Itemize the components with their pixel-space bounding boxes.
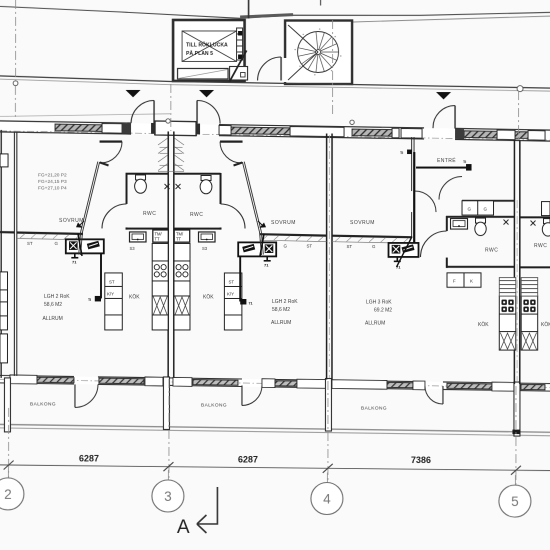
- svg-text:ST: ST: [347, 244, 353, 249]
- svg-text:TT: TT: [155, 236, 161, 241]
- balcony divider post g2: [4, 378, 10, 432]
- dimension tick x8.7: [4, 461, 14, 470]
- grid bubble 5 stem: [514, 475, 516, 485]
- wardrobe wall left edge apt: [0, 231, 14, 234]
- gallery edge line: [0, 76, 550, 88]
- electric line entre: [416, 167, 466, 169]
- rwc1 left wall: [126, 173, 128, 230]
- tall cabinet column apt2: [224, 273, 242, 330]
- slant wall extension apt2: [260, 232, 264, 255]
- cable connector apt2: [240, 299, 246, 305]
- top wall band base: [0, 121, 550, 141]
- svg-text:71: 71: [264, 262, 269, 267]
- rwc1 door arc: [102, 204, 127, 229]
- grid bubble 3 stem: [167, 470, 169, 480]
- party wall grid3: [168, 131, 174, 377]
- small service box right of bench: [230, 66, 248, 80]
- svg-text:SOVRUM: SOVRUM: [59, 218, 84, 224]
- left edge wall: [0, 130, 2, 378]
- grid bubble 2: [0, 478, 24, 510]
- dimension tick x168.5: [163, 462, 173, 471]
- left apt bench lower: [0, 334, 7, 363]
- kitchen bench apt2: [174, 243, 190, 330]
- inner sill line left wall segment: [0, 123, 55, 126]
- window sill box top band 290-344: [290, 127, 344, 137]
- balcony divider post g4: [325, 379, 331, 432]
- balcony door apt2 arc: [242, 385, 262, 405]
- circle on entry block: [166, 119, 170, 123]
- window hatch top band 352-392: [352, 129, 392, 136]
- svg-text:LGH 2 RoK: LGH 2 RoK: [272, 299, 298, 305]
- hall stub wall apt1: [100, 140, 123, 142]
- svg-text:58,6 M2: 58,6 M2: [44, 302, 62, 308]
- washbasin apt2: [199, 232, 216, 242]
- svg-text:K/Y: K/Y: [107, 291, 114, 296]
- post end cap g5: [512, 430, 520, 435]
- grid bubble 3: [152, 480, 184, 512]
- tall cabinet column apt1: [105, 273, 123, 330]
- entry door apt3 arc: [433, 106, 455, 129]
- top vertical wall stub: [248, 0, 250, 18]
- entry door apt1 leaf: [153, 100, 155, 123]
- svg-text:ALLRUM: ALLRUM: [271, 320, 291, 326]
- elevator lower bench rect: [178, 68, 229, 79]
- party wall grid5: [514, 140, 519, 384]
- text LGH apt3: [365, 300, 392, 327]
- entry door apt2 leaf: [196, 100, 198, 123]
- ground mark apt1: [71, 253, 78, 257]
- building face line right of stair: [353, 16, 550, 22]
- svg-text:RWC: RWC: [190, 212, 203, 218]
- F K boxes apt3: [447, 273, 481, 287]
- shaft hatch at party wall grid3: [158, 138, 184, 171]
- grid line 3 upper: [170, 84, 172, 131]
- cable apt2: [239, 256, 241, 301]
- hall door arc apt1: [101, 142, 123, 163]
- grid line 5 upper: [518, 91, 520, 139]
- window hatch bottom band 193-238: [193, 379, 238, 385]
- svg-text:PÅ PLAN 5: PÅ PLAN 5: [186, 50, 213, 57]
- grid line 4 top: [332, 20, 334, 116]
- vent symbol rwc3: [504, 220, 509, 225]
- rwc3 washbasin: [451, 219, 468, 230]
- grid bubble 4 stem: [326, 473, 328, 483]
- svg-text:TT: TT: [176, 236, 182, 241]
- svg-text:G: G: [284, 244, 288, 249]
- balcony outer edge line2: [0, 428, 550, 436]
- svg-text:G: G: [55, 241, 59, 246]
- electrical cluster apt1: [66, 239, 104, 253]
- wardrobe hatch apt3: [332, 242, 412, 244]
- upper cabinet hatch grid5: [499, 278, 537, 297]
- spiral staircase: [294, 28, 341, 75]
- bottom wall centre dash-dot: [0, 379, 550, 387]
- toilet rwc1: [135, 175, 147, 193]
- bottom wall face lines: [0, 375, 550, 391]
- window hatch bottom band 521-545: [521, 384, 545, 389]
- kitchen bench apt3: [499, 296, 516, 350]
- svg-text:KÖK: KÖK: [478, 321, 489, 328]
- stair diagonal to top-left corner: [288, 25, 318, 52]
- svg-text:6287: 6287: [238, 454, 258, 464]
- svg-text:RWC: RWC: [485, 248, 498, 254]
- hall stub lower apt1: [100, 162, 109, 165]
- window hatch top band 55-102: [55, 124, 102, 131]
- hall stub lower apt2: [234, 162, 243, 165]
- grid bubble 4: [311, 483, 343, 515]
- window sill box top band 401-422: [401, 128, 422, 138]
- window sill box top band 392-399: [392, 128, 399, 138]
- rwc3 walls: [446, 216, 514, 268]
- dimension tick x327.8: [323, 464, 333, 473]
- window hatch top band 515-528: [515, 132, 528, 139]
- window sill bottom band 297-326: [297, 379, 326, 388]
- svg-text:TI: TI: [400, 151, 403, 155]
- svg-text:71: 71: [248, 301, 252, 305]
- gallery column circle left: [13, 81, 18, 86]
- kitchen bench right apt: [521, 296, 538, 350]
- balcony divider post g3: [163, 377, 169, 430]
- window hatch top band 231-290: [231, 127, 290, 135]
- window hatch bottom band 387-413: [387, 382, 413, 388]
- svg-text:TILL RÖKLUCKA: TILL RÖKLUCKA: [186, 41, 228, 48]
- rwc top wall: [126, 173, 221, 175]
- closet G box right apt: [542, 202, 550, 216]
- grid line 4 bottom: [327, 381, 329, 482]
- svg-text:ST: ST: [109, 279, 115, 284]
- svg-text:BALKONG: BALKONG: [361, 406, 387, 412]
- wardrobe hatch apt2: [260, 240, 327, 241]
- kitchen bench apt1: [152, 243, 168, 330]
- window hatch top band 464-497: [464, 131, 497, 138]
- vent symbol rwc1: [165, 184, 170, 189]
- electric riser apt3: [413, 152, 415, 252]
- svg-text:SOVRUM: SOVRUM: [271, 220, 296, 226]
- svg-text:K/Y: K/Y: [227, 291, 234, 296]
- svg-text:BALKONG: BALKONG: [201, 402, 227, 408]
- dimension tick x516: [511, 466, 521, 475]
- smoke hatch crossed rect: [182, 31, 237, 62]
- entry door apt2 arc: [197, 100, 220, 123]
- svg-text:RWC: RWC: [143, 211, 156, 217]
- top wall band face lines: [0, 121, 550, 141]
- top wall centre dash-dot line: [0, 131, 550, 140]
- window sill bottom band 413-425: [413, 381, 425, 390]
- svg-text:KÖK: KÖK: [129, 293, 140, 300]
- stair room walls: [285, 21, 352, 85]
- svg-text:ALLRUM: ALLRUM: [42, 316, 62, 322]
- svg-text:7386: 7386: [411, 455, 431, 465]
- electric connector entre: [466, 164, 472, 171]
- window sill bottom band 332-387: [332, 380, 387, 390]
- bottom wall band base: [0, 375, 550, 391]
- hatch pole diagonal line: [229, 50, 247, 82]
- svg-text:6287: 6287: [79, 453, 99, 463]
- ground mark apt2: [264, 256, 271, 260]
- window sill bottom band 262-275: [262, 379, 275, 388]
- bench diagonal: [178, 69, 228, 78]
- wedge tick apt1: [76, 222, 83, 227]
- hall stub wall apt2: [220, 140, 243, 142]
- svg-text:K: K: [470, 279, 473, 284]
- wardrobe wall apt3: [332, 236, 412, 238]
- door arc elevator lobby: [258, 57, 282, 81]
- window sill box top band 102-122: [102, 123, 122, 133]
- entry marker triangle apt3: [436, 92, 451, 99]
- closet G boxes apt3: [462, 201, 494, 215]
- circle at sill x352: [350, 120, 354, 124]
- svg-text:ENTRÉ: ENTRÉ: [437, 157, 456, 164]
- sovrum door arc apt3: [415, 191, 436, 212]
- left apartment separating wall: [14, 132, 16, 376]
- closet wall apt3: [462, 200, 514, 202]
- slant wall extension apt1: [79, 232, 83, 255]
- entry door apt1 arc: [131, 100, 154, 123]
- window sill box top band 528-545: [528, 130, 545, 140]
- svg-text:4: 4: [323, 491, 331, 506]
- elevator door striped bar: [237, 28, 243, 60]
- balcony divider post g5: [514, 382, 520, 436]
- svg-text:FG+24,15 P3: FG+24,15 P3: [38, 179, 67, 185]
- text LGH apt2: [271, 299, 298, 326]
- section arrow A polyline: [198, 487, 218, 524]
- vent symbol right apt: [531, 221, 536, 226]
- grid line 2 bottom: [8, 408, 10, 478]
- bold diagonal through cluster apt2: [260, 234, 264, 256]
- entry marker triangle apt1: [126, 90, 141, 97]
- grid line 5 mid: [516, 200, 518, 382]
- text LGH apt1: [42, 294, 70, 322]
- left apt bench: [0, 272, 8, 330]
- wedge tick apt2: [260, 222, 267, 227]
- balcony door apt1 arc: [75, 384, 98, 407]
- rwc bottom wall: [126, 228, 221, 230]
- svg-text:FG+27,10 P4: FG+27,10 P4: [38, 185, 67, 191]
- svg-text:KÖK: KÖK: [541, 321, 550, 328]
- window hatch bottom band 99-144: [99, 378, 144, 384]
- window hatch bottom band 275-297: [275, 381, 297, 386]
- wardrobe wall apt2: [260, 234, 327, 235]
- svg-text:LGH 3 RoK: LGH 3 RoK: [366, 300, 392, 306]
- svg-text:5: 5: [511, 494, 519, 509]
- washbasin apt1: [130, 232, 147, 242]
- cable connector apt1: [95, 296, 101, 302]
- svg-text:G: G: [468, 207, 472, 212]
- grid line 2 below circle: [14, 86, 16, 118]
- window sill bottom band 145-163: [145, 377, 163, 386]
- sovrum-entre wall apt3: [412, 137, 414, 237]
- svg-text:ST: ST: [27, 241, 33, 246]
- svg-text:KÖK: KÖK: [203, 293, 214, 300]
- slanted hall wall apt2: [242, 162, 261, 232]
- svg-text:S3: S3: [130, 246, 136, 251]
- svg-text:RWC: RWC: [534, 243, 547, 249]
- gallery column circle right: [517, 86, 523, 92]
- svg-text:S3: S3: [202, 246, 208, 251]
- slanted hall wall apt1: [81, 162, 100, 232]
- hall door arc apt2: [220, 142, 242, 163]
- TM TT box apt2: [174, 230, 190, 242]
- svg-text:A: A: [177, 517, 190, 538]
- svg-text:58,6 M2: 58,6 M2: [272, 307, 290, 313]
- balcony door apt3 arc: [425, 386, 443, 404]
- entry marker triangle apt2: [199, 90, 214, 97]
- bold diagonal through cluster apt1: [78, 234, 82, 256]
- grid line 2 top: [15, 0, 17, 81]
- elevator room outer wall: [173, 20, 245, 81]
- grid line 4 mid: [328, 135, 330, 378]
- wall chunk 455-464: [455, 129, 464, 139]
- block between entry doors: [155, 121, 196, 136]
- rwc right apt walls: [520, 217, 550, 267]
- svg-text:G: G: [372, 244, 376, 249]
- window sill box top band 497-515: [497, 130, 515, 140]
- rwc right apt toilet: [542, 219, 550, 237]
- text FG levels: [38, 172, 67, 191]
- svg-text:3: 3: [164, 489, 172, 504]
- svg-text:F: F: [453, 279, 456, 284]
- diagonal through cluster apt3: [397, 237, 413, 268]
- riser top tick: [407, 150, 412, 155]
- stair room left wall door opening: [283, 58, 287, 82]
- svg-text:BALKONG: BALKONG: [30, 401, 56, 407]
- svg-text:G: G: [484, 207, 488, 212]
- vent symbol rwc2: [176, 184, 181, 189]
- dark jamb left of block: [151, 123, 155, 134]
- window sill bottom band 10-37: [10, 375, 37, 384]
- rwc2 right wall: [220, 173, 222, 230]
- rwc2 door arc: [221, 204, 246, 229]
- window sill bottom band 173-192: [173, 377, 192, 386]
- party wall grid4: [327, 134, 332, 380]
- grid bubble 2 stem: [7, 468, 9, 478]
- toilet rwc2: [200, 175, 212, 193]
- electrical cluster apt3: [389, 243, 419, 257]
- svg-text:71: 71: [72, 259, 77, 264]
- ground mark apt3: [394, 257, 401, 261]
- svg-text:ST: ST: [307, 244, 313, 249]
- stair diagonal to bottom-left corner: [288, 52, 318, 80]
- wardrobe hatch apt1: [17, 238, 83, 239]
- svg-text:ALLRUM: ALLRUM: [365, 321, 385, 327]
- faint upper sill line left part: [0, 114, 170, 117]
- section arrow A head: [197, 515, 207, 533]
- window sill box top band 219-231: [219, 125, 231, 135]
- rwc3 door arc: [421, 231, 447, 257]
- svg-text:69.2 M2: 69.2 M2: [374, 308, 392, 314]
- svg-text:SOVRUM: SOVRUM: [350, 220, 375, 226]
- window hatch bottom band 37-74: [37, 377, 74, 383]
- electrical cluster apt2: [238, 242, 276, 256]
- rwc3 toilet: [475, 218, 486, 236]
- dark jamb right of block: [196, 124, 200, 135]
- grid bubble 5: [499, 485, 531, 517]
- top facade thick segment: [240, 15, 293, 17]
- wardrobe wall apt1: [17, 233, 83, 234]
- cable apt1: [100, 253, 102, 298]
- hall door arc apt3: [439, 177, 462, 200]
- entry door apt3 leaf: [454, 106, 456, 129]
- balcony outer edge line1: [0, 424, 550, 432]
- svg-text:TI: TI: [463, 160, 466, 164]
- svg-text:ST: ST: [228, 279, 234, 284]
- svg-text:2: 2: [4, 487, 12, 502]
- top tick at grid 4 line: [320, 0, 322, 5]
- top facade line (sloping): [0, 6, 550, 18]
- dimension line: [0, 465, 550, 471]
- svg-text:FG+21,20 P2: FG+21,20 P2: [38, 172, 67, 178]
- svg-text:71: 71: [396, 265, 401, 270]
- wall chunk 122-131: [122, 123, 131, 133]
- grid line 5 bottom: [515, 386, 517, 485]
- TM TT box apt1: [153, 230, 169, 242]
- window sill bottom band 492-514: [492, 382, 514, 391]
- gallery edge second line: [0, 79, 550, 91]
- svg-text:TI: TI: [88, 298, 91, 302]
- window hatch bottom band 447-492: [447, 383, 492, 389]
- left apt box top: [0, 154, 8, 167]
- grid line 3 bottom: [168, 379, 170, 480]
- svg-text:LGH 2 RoK: LGH 2 RoK: [44, 294, 70, 300]
